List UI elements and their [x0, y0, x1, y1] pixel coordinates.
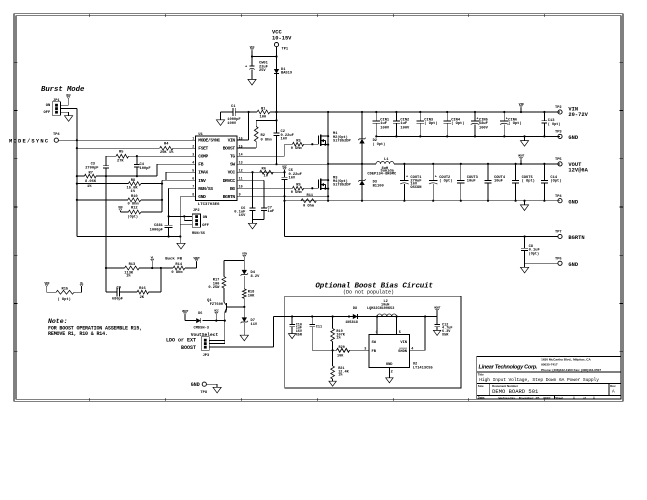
svg-text:TP3: TP3	[555, 131, 562, 135]
svg-text:0 Ohm: 0 Ohm	[291, 146, 303, 151]
svg-text:( Opt): ( Opt)	[522, 178, 535, 183]
svg-text:( Opt): ( Opt)	[58, 297, 71, 302]
svg-text:0 Ohm: 0 Ohm	[261, 138, 273, 143]
svg-text:TP4: TP4	[555, 195, 562, 199]
svg-text:VOUT: VOUT	[518, 154, 525, 158]
svg-text:25V: 25V	[259, 69, 266, 73]
svg-text:R15: R15	[62, 287, 69, 291]
svg-text:CDEP134-8R0MC: CDEP134-8R0MC	[367, 173, 397, 177]
svg-text:Buck FB: Buck FB	[165, 256, 182, 261]
svg-text:X5R: X5R	[442, 334, 449, 338]
svg-text:(Opt): (Opt)	[550, 178, 561, 183]
svg-text:R2: R2	[261, 134, 265, 138]
svg-text:2: 2	[192, 144, 194, 148]
svg-text:(Opt): (Opt)	[128, 215, 139, 220]
svg-text:FB: FB	[372, 350, 377, 354]
svg-text:TP1: TP1	[282, 47, 289, 51]
svg-text:VCC: VCC	[250, 45, 255, 49]
svg-text:R20: R20	[339, 346, 345, 350]
svg-text:A: A	[612, 389, 615, 394]
svg-text:DEMO BOARD 501: DEMO BOARD 501	[492, 388, 539, 395]
svg-text:TG: TG	[230, 154, 235, 160]
svg-text:1uF: 1uF	[268, 210, 275, 214]
svg-text:VIN: VIN	[228, 138, 236, 144]
svg-text:7: 7	[192, 184, 194, 188]
svg-text:LTC3703EG: LTC3703EG	[198, 203, 220, 207]
svg-text:SHDN: SHDN	[398, 350, 407, 354]
svg-text:OFF: OFF	[44, 111, 51, 115]
svg-text:R7: R7	[89, 172, 93, 176]
svg-text:Si7852DP: Si7852DP	[333, 183, 351, 188]
svg-text:10K: 10K	[248, 294, 255, 298]
svg-text:1: 1	[376, 331, 378, 335]
svg-text:BOOST: BOOST	[223, 146, 236, 152]
svg-text:OSCON: OSCON	[410, 186, 421, 190]
svg-text:IMAX: IMAX	[198, 170, 208, 176]
svg-text:0 Ohm: 0 Ohm	[291, 190, 303, 195]
svg-text:VL: VL	[80, 281, 84, 285]
svg-text:FB: FB	[198, 162, 203, 168]
svg-text:10: 10	[264, 175, 268, 179]
svg-text:( Opt): ( Opt)	[424, 121, 437, 126]
svg-text:1630 McCarthy Blvd., Milpitas,: 1630 McCarthy Blvd., Milpitas, CA	[541, 357, 591, 361]
svg-text:GND: GND	[191, 382, 200, 388]
svg-text:VIN: VIN	[400, 341, 407, 345]
svg-text:C1: C1	[231, 105, 236, 109]
svg-text:INV: INV	[198, 178, 206, 184]
svg-text:1N5818: 1N5818	[345, 321, 358, 325]
svg-text:2: 2	[391, 370, 393, 374]
svg-text:95035-7417: 95035-7417	[541, 362, 558, 366]
svg-text:( Opt): ( Opt)	[451, 121, 464, 126]
svg-text:JP3: JP3	[203, 354, 210, 358]
svg-text:6: 6	[192, 176, 194, 180]
svg-text:VOUT: VOUT	[182, 309, 189, 313]
svg-text:R3: R3	[296, 140, 301, 144]
svg-text:D6: D6	[198, 312, 202, 316]
svg-text:R9: R9	[296, 184, 300, 188]
svg-text:C11: C11	[316, 325, 322, 329]
svg-text:Si7852DP: Si7852DP	[333, 139, 351, 144]
svg-text:VOUT: VOUT	[193, 256, 200, 260]
svg-text:Note:: Note:	[48, 318, 68, 325]
svg-text:Date:: Date:	[478, 396, 485, 400]
svg-text:High Input Voltage, Step Down: High Input Voltage, Step Down 6A Power S…	[479, 377, 599, 383]
svg-text:8: 8	[192, 193, 194, 197]
svg-text:16: 16	[239, 136, 243, 140]
svg-text:1%: 1%	[131, 190, 136, 194]
svg-text:TP6: TP6	[555, 258, 562, 262]
svg-text:VIN: VIN	[44, 281, 49, 285]
svg-text:20-72V: 20-72V	[568, 112, 588, 118]
svg-text:BAS19: BAS19	[281, 72, 292, 76]
svg-text:11: 11	[239, 176, 243, 180]
svg-text:C9: C9	[117, 286, 121, 290]
svg-text:( Opt): ( Opt)	[548, 122, 561, 127]
svg-text:BOOST: BOOST	[181, 345, 196, 351]
svg-text:1: 1	[192, 136, 194, 140]
svg-text:Phone: (408)432-1900 Fax: (408: Phone: (408)432-1900 Fax: (408)434-0507	[541, 368, 601, 372]
svg-text:ON: ON	[46, 104, 50, 108]
svg-text:Linear Technology Corp.: Linear Technology Corp.	[479, 364, 539, 370]
svg-text:2700pF: 2700pF	[85, 167, 98, 171]
svg-text:CMDSH-3: CMDSH-3	[194, 326, 210, 330]
svg-text:D8: D8	[353, 307, 357, 311]
svg-text:R12: R12	[131, 207, 138, 211]
svg-text:0 Ohm: 0 Ohm	[303, 204, 315, 209]
svg-text:GND: GND	[386, 363, 393, 367]
svg-text:2K: 2K	[140, 296, 145, 300]
svg-text:16V: 16V	[289, 177, 296, 181]
svg-text:5: 5	[399, 331, 401, 335]
svg-text:11V: 11V	[251, 323, 258, 327]
svg-text:R8: R8	[131, 179, 136, 183]
svg-text:DRVCC: DRVCC	[223, 178, 236, 184]
svg-text:LDO or EXT: LDO or EXT	[166, 337, 196, 343]
svg-text:Sheet: Sheet	[555, 396, 563, 400]
svg-text:R11: R11	[307, 194, 314, 198]
svg-text:Wednesday, November 05, 2003: Wednesday, November 05, 2003	[499, 396, 551, 400]
svg-text:27K: 27K	[117, 160, 124, 164]
svg-text:100V: 100V	[380, 126, 390, 130]
svg-text:( Opt): ( Opt)	[373, 142, 386, 147]
svg-text:L1: L1	[384, 158, 389, 162]
svg-text:VOUT: VOUT	[434, 306, 441, 310]
svg-text:+: +	[435, 176, 437, 180]
svg-text:4: 4	[192, 160, 194, 164]
svg-text:FSET: FSET	[198, 146, 208, 152]
svg-text:R16: R16	[139, 287, 146, 291]
svg-text:( Opt): ( Opt)	[508, 121, 521, 126]
svg-text:8.2V: 8.2V	[251, 275, 261, 279]
svg-text:VIN: VIN	[242, 252, 247, 256]
svg-text:SW: SW	[372, 341, 377, 345]
svg-text:(Do not populate): (Do not populate)	[343, 289, 394, 295]
svg-text:SW: SW	[230, 162, 235, 168]
svg-text:16V: 16V	[281, 138, 288, 142]
svg-text:VIN: VIN	[519, 102, 524, 106]
svg-text:U1: U1	[198, 133, 203, 137]
svg-text:100V: 100V	[227, 122, 237, 126]
svg-text:B1100: B1100	[373, 184, 384, 188]
svg-text:TP5: TP5	[555, 158, 562, 162]
svg-text:Burst Mode: Burst Mode	[41, 86, 85, 94]
svg-text:+: +	[476, 118, 478, 122]
svg-text:0.25W: 0.25W	[208, 286, 220, 290]
svg-text:Title: Title	[478, 372, 484, 376]
svg-text:3: 3	[192, 152, 194, 156]
svg-text:1: 1	[573, 396, 575, 400]
svg-text:680pF: 680pF	[112, 298, 123, 302]
svg-text:BGRTN: BGRTN	[568, 235, 584, 241]
svg-text:GND: GND	[198, 194, 206, 200]
svg-text:RUN/SS: RUN/SS	[198, 186, 213, 192]
svg-text:MODE/SYNC: MODE/SYNC	[9, 139, 49, 145]
svg-text:R13: R13	[129, 263, 136, 267]
svg-text:10: 10	[239, 184, 243, 188]
svg-text:100V: 100V	[400, 126, 410, 130]
svg-text:JP2: JP2	[193, 209, 200, 213]
svg-text:1%: 1%	[126, 275, 131, 279]
svg-text:100pF: 100pF	[140, 167, 151, 171]
svg-text:( Opt): ( Opt)	[439, 178, 452, 183]
svg-text:+: +	[506, 118, 508, 122]
svg-text:VCC: VCC	[118, 205, 123, 209]
svg-text:GND: GND	[568, 135, 578, 141]
svg-text:100V: 100V	[479, 126, 489, 130]
svg-text:10-15V: 10-15V	[272, 35, 292, 41]
svg-text:VCC: VCC	[214, 309, 219, 313]
svg-text:9: 9	[239, 193, 241, 197]
svg-text:Rev: Rev	[610, 384, 616, 388]
svg-text:15: 15	[239, 144, 243, 148]
svg-text:OFF: OFF	[202, 224, 209, 228]
svg-text:TP2: TP2	[555, 106, 562, 110]
svg-text:RUN/SS: RUN/SS	[192, 231, 206, 236]
svg-text:20K 1%: 20K 1%	[160, 151, 174, 155]
svg-text:R6: R6	[262, 167, 266, 171]
svg-text:12V@6A: 12V@6A	[568, 168, 588, 174]
svg-text:0 Ohm: 0 Ohm	[171, 270, 183, 275]
svg-text:ON: ON	[203, 216, 207, 220]
svg-text:REMOVE R1, R10 & R14.: REMOVE R1, R10 & R14.	[48, 331, 108, 337]
svg-text:R1: R1	[261, 108, 266, 112]
svg-text:MODE/SYNC: MODE/SYNC	[198, 138, 220, 144]
svg-text:14: 14	[239, 152, 243, 156]
svg-text:13: 13	[239, 160, 243, 164]
svg-text:R4: R4	[164, 143, 169, 147]
svg-text:10uF: 10uF	[467, 179, 476, 183]
svg-text:LQH32CN100K53: LQH32CN100K53	[367, 307, 394, 311]
svg-text:VCC: VCC	[282, 164, 287, 168]
svg-text:of: of	[583, 396, 586, 400]
svg-text:R5: R5	[119, 150, 124, 154]
svg-text:1: 1	[593, 396, 595, 400]
svg-text:TP7: TP7	[555, 231, 562, 235]
svg-text:TP8: TP8	[200, 391, 207, 395]
svg-text:1000pF: 1000pF	[150, 228, 163, 232]
svg-text:12: 12	[239, 168, 243, 172]
svg-text:GND: GND	[568, 199, 578, 205]
svg-text:10K: 10K	[337, 355, 344, 359]
svg-text:100: 100	[260, 115, 267, 119]
svg-text:10uF: 10uF	[494, 179, 503, 183]
svg-text:X5R: X5R	[296, 334, 303, 338]
svg-text:Size: Size	[478, 384, 484, 388]
svg-text:R10: R10	[131, 195, 138, 199]
svg-text:COMP: COMP	[198, 154, 208, 160]
svg-text:16V: 16V	[239, 214, 246, 218]
svg-text:VL: VL	[151, 256, 155, 260]
svg-text:BGRTN: BGRTN	[223, 194, 236, 200]
svg-text:5: 5	[192, 168, 194, 172]
svg-text:1%: 1%	[87, 185, 92, 189]
svg-text:JP1: JP1	[53, 99, 60, 103]
svg-text:FZT600: FZT600	[210, 303, 223, 307]
svg-text:BG: BG	[230, 186, 235, 192]
svg-text:R14: R14	[175, 263, 182, 267]
svg-text:VCC: VCC	[228, 170, 236, 176]
svg-text:LT1413CS5: LT1413CS5	[413, 367, 434, 371]
svg-text:+: +	[406, 176, 408, 180]
svg-text:(Opt): (Opt)	[529, 251, 540, 256]
svg-text:GND: GND	[568, 262, 578, 268]
svg-text:TP4: TP4	[53, 133, 60, 137]
svg-text:VCC: VCC	[66, 93, 71, 97]
